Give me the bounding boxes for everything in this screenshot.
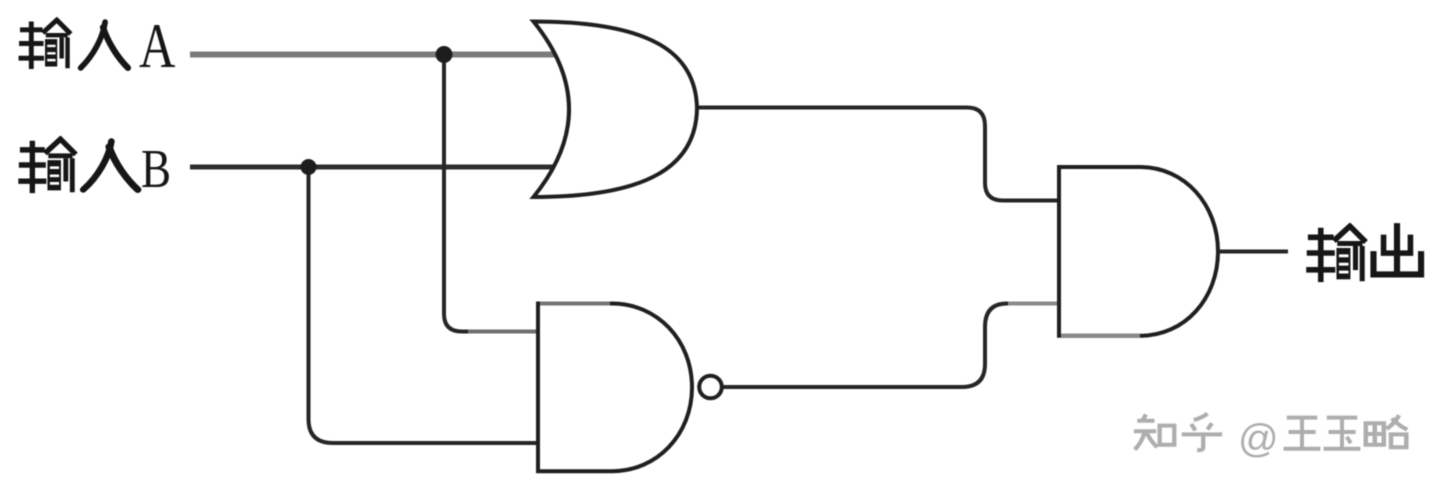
label 输入A : glyph 入: [81, 22, 128, 68]
wire OR output to AND input 1: [697, 108, 1059, 201]
watermark : glyph 略: [1366, 415, 1407, 447]
label 输入B : glyph 输: [21, 140, 74, 191]
wire B horizontal: [190, 165, 578, 170]
watermark : glyph 王: [1284, 418, 1321, 449]
wire AND output: [1218, 250, 1288, 254]
label 输入B : letter B: [141, 138, 171, 199]
wire A horizontal: [190, 52, 575, 58]
and-gate U3 bottom edge gray overpaint: [1061, 334, 1140, 338]
nand-gate U2 input stub gray overpaint: [468, 330, 536, 334]
nand-gate U2 inversion bubble: [699, 376, 722, 399]
label 输出 : glyph 出: [1373, 226, 1421, 274]
nand-gate U2 body: [538, 304, 692, 472]
wire from node A down to NAND input 1: [444, 55, 545, 332]
and-gate U3: [1059, 167, 1218, 336]
wire from node B down to NAND input 2: [309, 167, 546, 443]
wire segment gray into AND lower input: [1008, 302, 1057, 306]
nand-gate U2 top edge gray overpaint: [540, 302, 610, 306]
label 输入A : letter A: [139, 12, 175, 82]
label 输入A : glyph 输: [21, 20, 69, 66]
node B junction dot: [301, 159, 317, 175]
node A junction dot: [436, 46, 453, 63]
label 输出 : glyph 输: [1309, 227, 1364, 280]
watermark 知乎 @王玉略 : glyph 知: [1134, 414, 1174, 449]
watermark : glyph 乎: [1182, 414, 1222, 451]
wire NAND output to AND input 2: [723, 304, 1060, 388]
svg-text:@: @: [1238, 417, 1279, 461]
svg-text:B: B: [141, 138, 171, 199]
svg-text:A: A: [139, 12, 175, 82]
or-gate U1: [534, 22, 698, 198]
watermark : glyph 玉: [1324, 418, 1361, 449]
label 输入B : glyph 入: [83, 141, 138, 189]
